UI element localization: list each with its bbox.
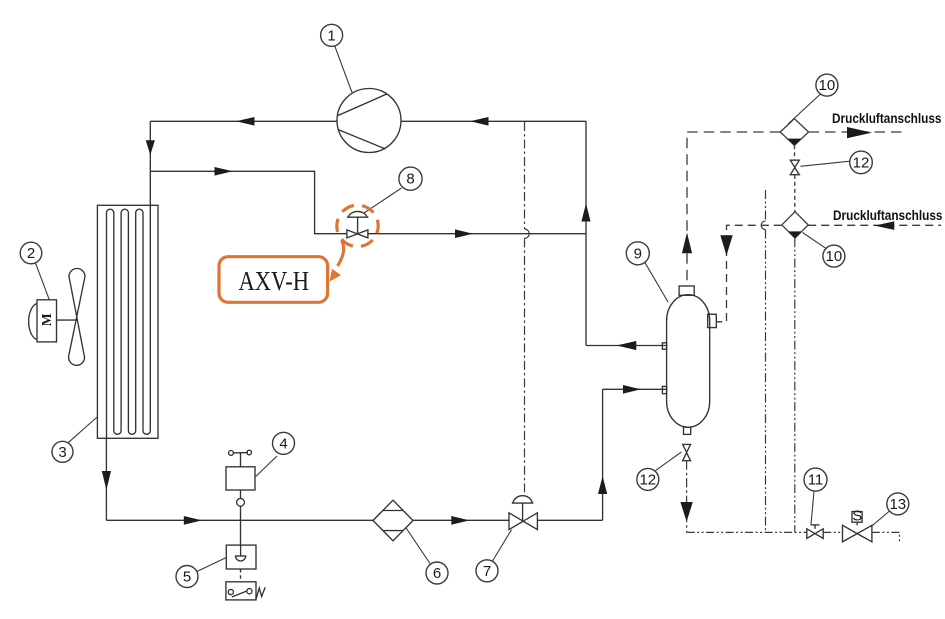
svg-text:2: 2 [27,245,35,262]
svg-text:4: 4 [279,435,287,452]
svg-text:13: 13 [889,496,906,513]
svg-text:11: 11 [808,472,824,489]
svg-text:7: 7 [483,563,491,580]
svg-text:12: 12 [639,471,656,488]
svg-text:10: 10 [819,77,836,94]
svg-text:9: 9 [634,245,642,262]
svg-text:M: M [39,313,54,326]
svg-text:10: 10 [826,248,843,265]
svg-text:6: 6 [433,565,441,582]
svg-text:5: 5 [183,569,191,586]
svg-text:AXV-H: AXV-H [239,266,310,296]
svg-text:3: 3 [58,444,66,461]
svg-text:Druckluftanschluss: Druckluftanschluss [832,110,942,126]
svg-text:8: 8 [406,171,414,188]
svg-text:Druckluftanschluss: Druckluftanschluss [833,207,943,223]
svg-text:S: S [852,508,862,525]
svg-text:1: 1 [327,27,335,44]
svg-text:12: 12 [853,154,870,171]
